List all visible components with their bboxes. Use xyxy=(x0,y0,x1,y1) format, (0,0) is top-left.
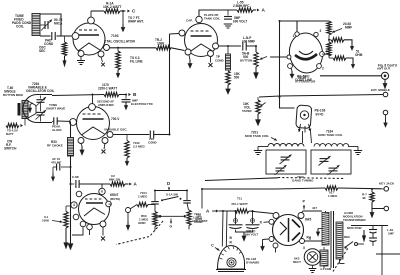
resistor R16 grid leak xyxy=(65,206,67,212)
svg-text:ALIGN: ALIGN xyxy=(52,128,61,132)
tube V1 internals xyxy=(79,29,97,31)
gang dashed link left xyxy=(116,221,163,245)
svg-text:68K-1W: 68K-1W xyxy=(109,177,120,181)
svg-text:GRID TANK COIL: GRID TANK COIL xyxy=(318,133,343,137)
svg-text:500: 500 xyxy=(234,75,239,79)
terminal J3 and ground xyxy=(383,110,388,115)
svg-text:TAPER: TAPER xyxy=(242,109,253,113)
resistor R1 xyxy=(62,42,66,56)
terminal J1 antenna xyxy=(381,72,388,79)
svg-text:470-1 WATT: 470-1 WATT xyxy=(231,202,248,206)
svg-text:1: 1 xyxy=(293,34,295,38)
microphone jack J4 and ground xyxy=(126,208,131,213)
tube V1 left pin xyxy=(72,33,79,40)
svg-text:6: 6 xyxy=(101,190,103,194)
svg-text:600 VOLT: 600 VOLT xyxy=(233,19,247,23)
wire xyxy=(120,10,126,12)
switch S2 send-receive xyxy=(339,259,341,264)
wire xyxy=(259,95,383,98)
switch S1A xyxy=(161,199,163,201)
potentiometer R12 gain xyxy=(257,97,259,100)
svg-text:1 MEG: 1 MEG xyxy=(138,194,148,198)
svg-text:COND: COND xyxy=(215,59,224,63)
wire xyxy=(338,187,384,190)
wire xyxy=(323,247,325,250)
svg-text:T11: T11 xyxy=(237,197,242,201)
wire xyxy=(91,10,104,12)
svg-text:MMF: MMF xyxy=(345,25,352,29)
winding L3 filament xyxy=(320,250,328,266)
resistor R13 xyxy=(104,92,119,96)
wire xyxy=(219,210,236,212)
wire xyxy=(187,203,189,210)
svg-text:700-V: 700-V xyxy=(111,117,120,121)
tube V4 pins xyxy=(89,104,96,111)
variable capacitor C11 xyxy=(40,102,42,111)
svg-text:XTAL OSCILLATOR: XTAL OSCILLATOR xyxy=(104,40,135,44)
wire xyxy=(302,131,304,143)
ground xyxy=(64,56,66,61)
resistor R20 xyxy=(325,186,338,190)
wire xyxy=(110,47,156,49)
svg-text:COND: COND xyxy=(194,220,203,224)
wire xyxy=(155,190,187,192)
svg-text:TRANSFORMER: TRANSFORMER xyxy=(343,218,367,222)
svg-text:2200-1 WATT: 2200-1 WATT xyxy=(98,87,117,91)
wire xyxy=(246,46,256,52)
wire xyxy=(170,33,180,36)
wire xyxy=(249,211,273,214)
ground xyxy=(126,158,128,161)
svg-text:2.2 MEG: 2.2 MEG xyxy=(133,144,146,148)
svg-text:CAP.: CAP. xyxy=(186,19,193,23)
node junction xyxy=(159,215,162,218)
wire xyxy=(320,75,381,77)
capacitor C14 xyxy=(149,131,151,139)
wire xyxy=(328,35,330,42)
junction dots xyxy=(92,94,94,96)
svg-text:TANK COIL: TANK COIL xyxy=(204,16,220,20)
svg-text:MOD TANK COIL: MOD TANK COIL xyxy=(245,134,269,138)
resistor R22 xyxy=(235,209,249,213)
wire with arrow xyxy=(155,215,184,217)
variable capacitor C10 xyxy=(40,96,42,99)
wire main bus xyxy=(70,156,72,238)
wire xyxy=(376,253,400,255)
ground xyxy=(117,70,119,73)
ground xyxy=(70,238,72,244)
transformer T3 box xyxy=(311,150,351,174)
svg-text:4: 4 xyxy=(73,203,75,207)
terminal J2 xyxy=(383,92,388,97)
resistor R11 and ground xyxy=(329,57,333,59)
microphone M1 xyxy=(18,103,21,116)
wire xyxy=(325,211,327,213)
svg-text:447: 447 xyxy=(312,206,317,210)
svg-text:AMPLIFIER: AMPLIFIER xyxy=(98,103,115,107)
capacitor C5 xyxy=(242,42,244,51)
wire xyxy=(148,204,155,206)
x mark xyxy=(104,144,105,150)
svg-text:6V=D: 6V=D xyxy=(316,113,325,117)
wire xyxy=(302,211,303,213)
svg-text:OSCILLATOR COIL: OSCILLATOR COIL xyxy=(26,89,54,93)
variable capacitor C8 xyxy=(320,158,329,160)
svg-text:C: C xyxy=(211,244,214,248)
svg-text:3: 3 xyxy=(320,29,322,33)
wire xyxy=(72,227,83,235)
tube V6 pins xyxy=(273,213,279,219)
svg-text:100 MMF: 100 MMF xyxy=(242,39,255,43)
terminal J5 xyxy=(384,187,389,192)
ground xyxy=(227,85,229,89)
svg-text:COAX LINE: COAX LINE xyxy=(295,78,312,82)
svg-text:SHORT WAVE: SHORT WAVE xyxy=(46,107,65,111)
transformer T2 coil xyxy=(268,144,304,147)
transformer T3 coil xyxy=(314,144,349,147)
svg-text:BUTTON MIKE: BUTTON MIKE xyxy=(3,93,23,97)
resistor R14 xyxy=(126,135,128,141)
svg-text:150K: 150K xyxy=(42,218,50,222)
svg-text:7193: 7193 xyxy=(111,34,119,38)
tube V1 envelope xyxy=(73,23,105,55)
inductor L2 rf choke xyxy=(68,138,74,157)
wire xyxy=(101,184,103,188)
wire xyxy=(171,48,185,51)
svg-text:SWITCH: SWITCH xyxy=(4,147,17,151)
ground xyxy=(258,146,268,148)
wire xyxy=(186,191,188,201)
variable capacitor C1 xyxy=(44,21,46,29)
svg-text:SEC: SEC xyxy=(39,49,46,53)
wire xyxy=(305,240,323,242)
wire xyxy=(40,14,61,36)
wire xyxy=(263,238,270,241)
capacitor C13 and ground xyxy=(125,95,127,99)
svg-text:2: 2 xyxy=(322,67,324,71)
terminal A arrow 2 xyxy=(125,183,129,185)
potentiometer R7 xyxy=(254,52,258,67)
svg-text:DYNAMO: DYNAMO xyxy=(246,261,260,265)
svg-text:470 MF: 470 MF xyxy=(51,160,61,164)
label G with arrow xyxy=(170,219,172,223)
oscillator coil form xyxy=(23,95,52,123)
transformer T4 secondary winding xyxy=(336,222,343,259)
svg-text:100K: 100K xyxy=(157,41,165,45)
tube V5 internals xyxy=(85,198,101,200)
ground xyxy=(371,209,373,213)
wire main bus xyxy=(70,122,72,138)
capacitor C21 xyxy=(372,226,374,230)
wire xyxy=(154,227,156,231)
tube V2 envelope xyxy=(185,24,218,57)
ground xyxy=(189,55,190,60)
inductor L1 choke xyxy=(227,46,229,54)
ground xyxy=(122,11,124,24)
ground xyxy=(291,68,292,71)
tube V4 internals xyxy=(83,113,101,115)
ground xyxy=(81,144,82,147)
ground xyxy=(80,57,82,61)
svg-text:(BOTH): (BOTH) xyxy=(110,197,120,201)
wire xyxy=(40,35,51,37)
svg-text:BATT: BATT xyxy=(6,132,14,136)
resistor R19 xyxy=(187,210,191,226)
svg-text:GRID: GRID xyxy=(138,221,146,225)
resistor R3 xyxy=(156,46,171,50)
ground xyxy=(30,103,33,105)
wire bus upper xyxy=(205,178,278,181)
tube V3 filament arc xyxy=(295,54,317,59)
capacitor C15 and ground xyxy=(61,166,71,168)
svg-text:RF CHOKE: RF CHOKE xyxy=(47,144,63,148)
tube V2 pins xyxy=(196,16,202,22)
tube V7 internals xyxy=(307,252,318,263)
resistor R15 xyxy=(110,182,125,186)
ground xyxy=(65,228,67,243)
tube V1 right pin xyxy=(104,45,110,51)
capacitor C22 xyxy=(372,233,374,238)
x mark xyxy=(101,57,103,62)
resistor R9 xyxy=(327,42,331,56)
wire xyxy=(351,225,388,227)
resistor R21 xyxy=(371,189,373,192)
wire xyxy=(296,21,298,32)
resistor R17 xyxy=(137,202,148,206)
electrolytic capacitor C20 xyxy=(252,211,254,224)
svg-text:2.5MH RFC: 2.5MH RFC xyxy=(233,4,250,8)
svg-text:10K 2 WATT: 10K 2 WATT xyxy=(103,5,122,9)
terminal C arrow xyxy=(127,9,130,12)
wire xyxy=(358,243,365,245)
tube V3 envelope xyxy=(287,31,325,75)
svg-text:KEY JACK: KEY JACK xyxy=(379,182,395,186)
wire xyxy=(280,97,295,108)
svg-text:S-1A SW: S-1A SW xyxy=(166,192,178,196)
svg-text:C-88: C-88 xyxy=(72,175,79,179)
tube V6 envelope final xyxy=(273,215,304,246)
wire xyxy=(322,53,329,56)
ground xyxy=(236,230,253,232)
dynamotor M2 xyxy=(218,246,245,270)
x mark xyxy=(210,57,212,63)
wire xyxy=(130,205,137,209)
ground xyxy=(312,265,314,268)
tube V1 top pin xyxy=(88,17,95,24)
svg-text:RECT: RECT xyxy=(293,260,301,264)
resistor R2 xyxy=(104,9,120,13)
terminal B arrow xyxy=(119,94,127,96)
wire xyxy=(154,134,170,136)
tube V1 bottom pins xyxy=(78,51,84,57)
wire bus lower xyxy=(202,188,325,189)
variable capacitor C7 xyxy=(276,167,285,169)
wire xyxy=(113,134,149,136)
gang tuning dashed link xyxy=(278,178,345,179)
electrolytic capacitor C19 xyxy=(235,211,237,224)
svg-text:1MF: 1MF xyxy=(388,232,394,236)
svg-text:FIL LINE: FIL LINE xyxy=(130,60,143,64)
resistor R4 to filament xyxy=(117,48,119,51)
resistor R8 xyxy=(327,21,331,35)
ground tap xyxy=(318,228,322,230)
tube V5 envelope xyxy=(79,194,110,225)
wire dynamotor feeds xyxy=(221,211,224,247)
wire xyxy=(199,10,237,16)
wire xyxy=(372,202,384,209)
svg-text:4.4 OHM: 4.4 OHM xyxy=(320,267,332,271)
ground xyxy=(348,146,358,148)
ground xyxy=(384,80,386,84)
transformer T4 primary winding xyxy=(322,213,329,246)
capacitor C12 xyxy=(53,117,55,125)
resistor R10 and ground xyxy=(329,39,331,41)
svg-text:EXT. MOBILE: EXT. MOBILE xyxy=(371,88,390,92)
wire xyxy=(154,204,156,212)
ground xyxy=(262,243,264,246)
svg-text:ANT OUT: ANT OUT xyxy=(377,67,391,71)
ground xyxy=(363,230,365,236)
capacitor C4 and ground xyxy=(227,10,229,16)
svg-text:MICA: MICA xyxy=(54,22,63,26)
wire xyxy=(381,226,383,275)
tube V3 pins xyxy=(295,32,299,36)
svg-text:MOD POW: MOD POW xyxy=(347,226,362,230)
transformer T4 core xyxy=(330,211,332,268)
svg-text:600 VOLT: 600 VOLT xyxy=(245,232,258,236)
svg-text:GANG TUNING: GANG TUNING xyxy=(292,178,314,182)
svg-text:OHM: OHM xyxy=(355,53,363,57)
wire xyxy=(52,95,104,96)
resistor R6 xyxy=(226,71,230,85)
tube V7 rectifier envelope xyxy=(304,249,321,266)
capacitor C18 xyxy=(183,200,191,202)
variable capacitor C6 xyxy=(281,156,290,158)
tube V6 internals xyxy=(280,222,287,235)
tube V4 envelope xyxy=(77,107,110,140)
svg-text:COIL: COIL xyxy=(16,25,24,29)
wire xyxy=(201,189,203,209)
svg-text:ELECTROLYTIC: ELECTROLYTIC xyxy=(131,102,154,106)
capacitor C2 xyxy=(51,32,53,40)
wire xyxy=(270,56,288,58)
variable capacitor C9 xyxy=(329,167,338,169)
gang dashed link right xyxy=(333,248,348,272)
terminal A arrow xyxy=(253,9,256,11)
terminal J6 xyxy=(384,206,389,211)
svg-text:6A5: 6A5 xyxy=(305,218,311,222)
tube V2 internals xyxy=(191,30,209,32)
transformer T2 box xyxy=(266,150,306,174)
transformer T1 hatched can xyxy=(32,14,40,36)
svg-text:1 MEG: 1 MEG xyxy=(328,194,338,198)
mike transformer resistor xyxy=(6,123,19,127)
wire and x mark xyxy=(102,227,104,236)
transformer T4 bottom lead xyxy=(339,259,341,261)
resistor R5 rf choke xyxy=(237,8,253,12)
svg-text:REC: REC xyxy=(344,235,351,239)
svg-text:VARIABLE OSC.: VARIABLE OSC. xyxy=(104,128,128,132)
capacitor C17 xyxy=(151,201,159,203)
wire xyxy=(219,45,242,47)
wire xyxy=(275,248,277,253)
svg-text:WHIP ANT.: WHIP ANT. xyxy=(128,19,144,23)
wire xyxy=(154,191,156,202)
ground xyxy=(255,67,257,73)
resistor R18 grid xyxy=(153,212,157,227)
vibrator U1 PE-103 xyxy=(296,105,312,128)
tube V5 pins xyxy=(99,188,105,194)
svg-text:COND: COND xyxy=(148,140,157,144)
capacitor C16 xyxy=(71,183,75,185)
wire grid feed vertical xyxy=(169,34,171,135)
wire bus to final xyxy=(280,21,330,97)
wire xyxy=(92,95,94,104)
svg-text:BUTTON: BUTTON xyxy=(240,59,252,63)
ground xyxy=(257,114,259,120)
